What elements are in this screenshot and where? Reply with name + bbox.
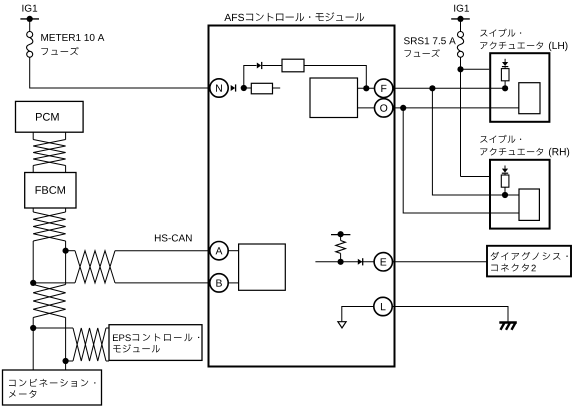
- wire pin F to actuators: [393, 88, 519, 195]
- resistor R5 RH: [501, 174, 509, 195]
- pin A: [210, 242, 228, 260]
- CAN bus parallel section 2: [33, 318, 65, 371]
- pin N: [210, 79, 228, 97]
- wire arrow to resistor R1: [263, 65, 283, 67]
- diode arrow LH: [502, 59, 508, 67]
- connector arrow upper branch: [257, 62, 262, 69]
- resistor R2: [251, 83, 272, 94]
- junction CAN-L tap: [30, 280, 36, 286]
- wire R2 stub: [273, 87, 281, 89]
- motor M2 RH: [519, 189, 539, 220]
- wire N up branch: [244, 66, 257, 89]
- junction CAN-H tap: [63, 248, 69, 254]
- wire R1 to F node: [304, 66, 366, 89]
- junction node at F: [363, 85, 369, 91]
- pin O: [375, 99, 393, 117]
- pin B: [210, 274, 228, 292]
- wire pin O to actuators: [393, 108, 519, 213]
- junction node after N: [241, 85, 247, 91]
- node IG1 (right): [454, 5, 469, 12]
- wire pin A to U2: [228, 250, 238, 252]
- twisted pair FBCM to CAN section 1: [33, 208, 65, 241]
- wire E internal: [315, 261, 374, 263]
- terminal IG1 left: [20, 16, 39, 22]
- pin F: [375, 79, 393, 97]
- connector arrow at N: [231, 84, 236, 91]
- wire fuse F2 to actuator supplies: [461, 57, 490, 176]
- junction node supply split: [457, 66, 463, 72]
- terminal IG1 right: [451, 16, 470, 22]
- box diagnostic connector 2: [487, 246, 571, 277]
- wire IG1 to fuse F1: [29, 19, 31, 32]
- twisted pair PCM to FBCM: [33, 132, 65, 172]
- wire U1 to pin F: [358, 87, 375, 89]
- ECU FBCM: [25, 173, 76, 209]
- twisted pair HS-CAN to module pins A B: [33, 251, 210, 283]
- pin E: [374, 253, 392, 271]
- label swivel actuator RH: [480, 135, 569, 158]
- label swivel actuator LH: [480, 29, 567, 52]
- label HS-CAN: [155, 234, 192, 241]
- junction EPS CAN-H tap: [30, 325, 36, 331]
- ECU PCM: [16, 101, 84, 132]
- ECU EPS control module: [109, 325, 202, 361]
- junction node E branch: [338, 259, 344, 265]
- box swivel actuator LH: [490, 53, 549, 122]
- ECU combination meter: [3, 370, 102, 405]
- resistor R1: [282, 59, 304, 72]
- wire IG1 to fuse F2: [460, 19, 462, 32]
- wire U1 to pin O: [358, 107, 375, 109]
- junction node LH: [502, 85, 508, 91]
- motor M1 LH: [519, 83, 540, 114]
- twisted pair to EPS module: [33, 328, 109, 361]
- node IG1 (left): [22, 5, 37, 12]
- fuse F2 SRS1 7.5A: [457, 32, 463, 58]
- module AFS control module box: [209, 26, 395, 367]
- ground symbol signal (triangle): [338, 322, 346, 328]
- wire pin B to U2: [228, 282, 238, 284]
- fuse F1 METER1 10A: [27, 32, 33, 58]
- wire L to signal ground: [342, 307, 374, 322]
- IC U1: [310, 78, 358, 118]
- label METER1 10 A fuse: [41, 34, 104, 55]
- junction EPS CAN-L tap: [63, 358, 69, 364]
- junction node RH: [502, 192, 508, 198]
- wire pin E to diagnostic connector: [393, 261, 488, 263]
- box swivel actuator RH: [490, 160, 550, 229]
- junction node O branch: [400, 105, 406, 111]
- connector arrow at E: [358, 258, 363, 265]
- wire pin L to chassis ground: [392, 307, 508, 323]
- diode arrow RH: [502, 166, 508, 174]
- resistor R4 LH: [501, 67, 509, 88]
- wire fuse F1 to pin N: [30, 57, 210, 88]
- IC U2: [239, 244, 286, 290]
- pull-up resistor R3 (zigzag) with supply terminal: [331, 231, 350, 262]
- ground symbol chassis: [499, 323, 517, 330]
- pin L: [374, 297, 392, 315]
- CAN bus parallel section 1: [33, 241, 65, 285]
- wire junction to resistor R2: [244, 87, 252, 89]
- label SRS1 7.5 A fuse: [404, 37, 456, 57]
- label AFS control module: [224, 12, 364, 21]
- twisted pair section 1 to section 2: [33, 285, 65, 318]
- junction node F branch: [429, 85, 435, 91]
